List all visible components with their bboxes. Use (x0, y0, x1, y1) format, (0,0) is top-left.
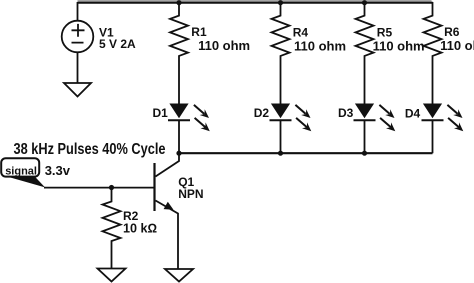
svg-text:R5: R5 (377, 25, 393, 39)
svg-text:R1: R1 (191, 25, 207, 39)
svg-text:D3: D3 (338, 106, 354, 120)
svg-text:D2: D2 (254, 106, 270, 120)
svg-text:110 ohm: 110 ohm (294, 39, 346, 54)
svg-text:110 ohm: 110 ohm (198, 38, 250, 53)
svg-text:3.3v: 3.3v (45, 163, 71, 178)
svg-text:R4: R4 (293, 25, 309, 39)
svg-text:110 ohm: 110 ohm (440, 38, 474, 53)
svg-text:D1: D1 (153, 106, 169, 120)
svg-text:R6: R6 (444, 25, 460, 39)
svg-text:38 kHz Pulses 40% Cycle: 38 kHz Pulses 40% Cycle (14, 141, 166, 158)
svg-text:D4: D4 (405, 107, 421, 121)
svg-text:NPN: NPN (178, 187, 203, 201)
svg-text:10 kΩ: 10 kΩ (123, 222, 157, 236)
svg-text:signal: signal (5, 166, 37, 178)
svg-text:110 ohm: 110 ohm (373, 39, 425, 54)
svg-text:5 V 2A: 5 V 2A (99, 37, 136, 51)
